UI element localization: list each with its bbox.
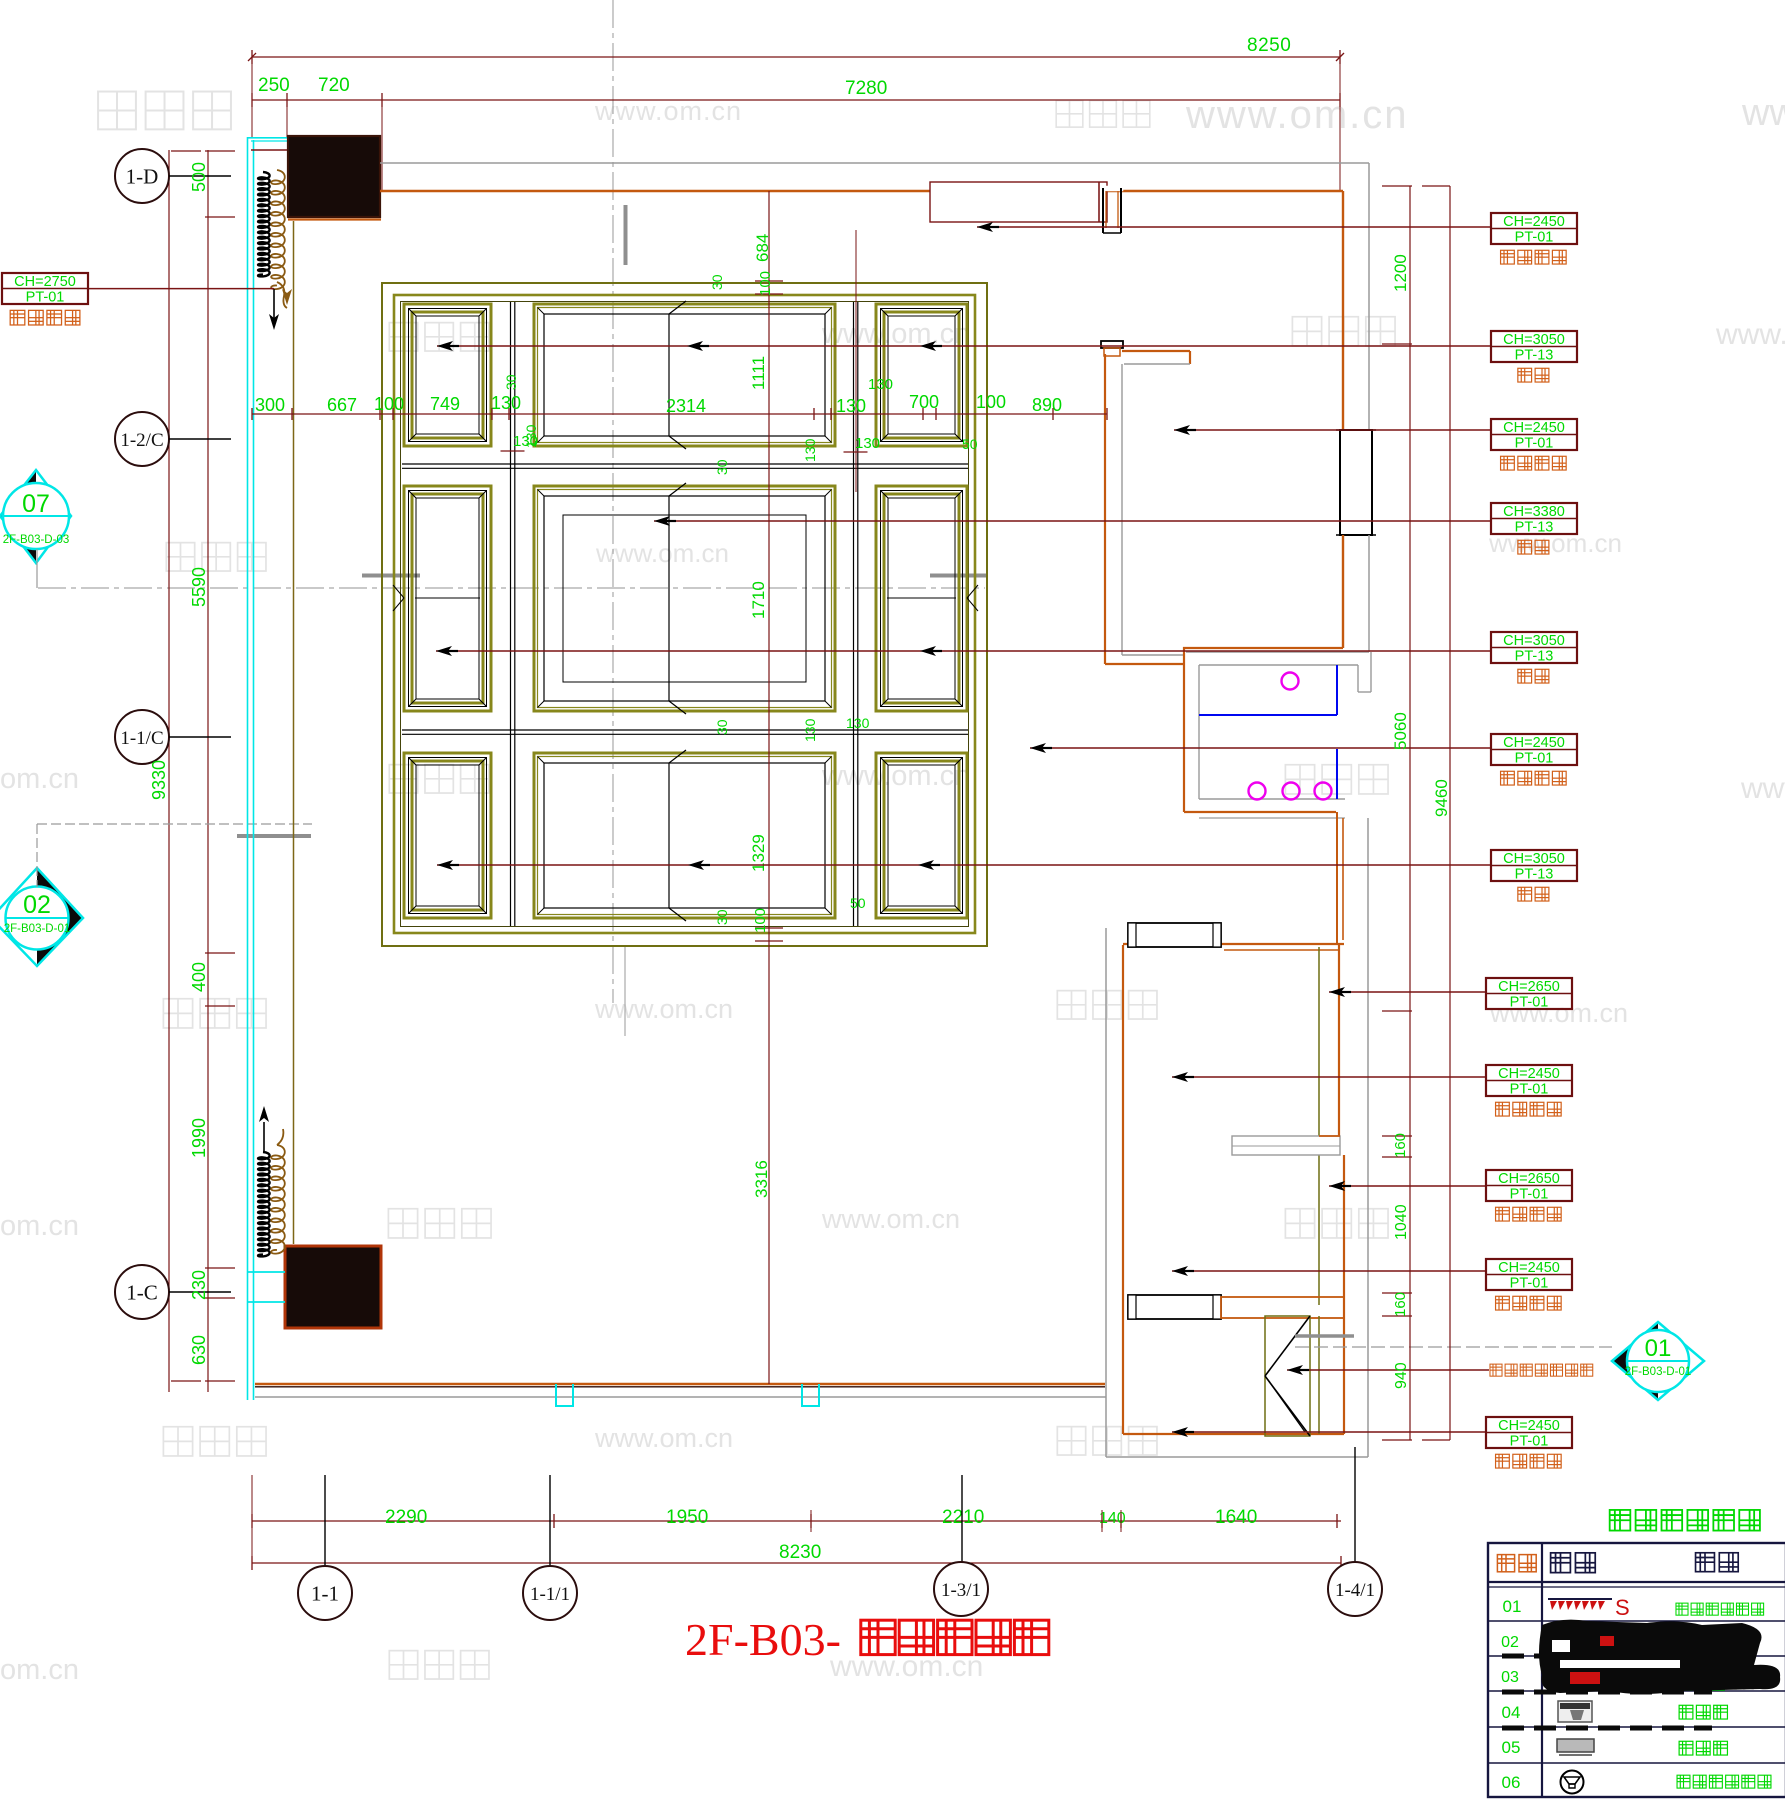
cyan door mark 2 xyxy=(802,1384,819,1406)
coffer main frame xyxy=(394,295,975,933)
svg-text:1950: 1950 xyxy=(666,1507,708,1528)
leader 11 y=1271 xyxy=(1172,1270,1486,1272)
leader 6 y=748 xyxy=(1030,747,1491,749)
coffer beam lines v2 xyxy=(853,302,855,926)
coffer beam lines h1 xyxy=(402,463,968,465)
centerline tick bar x=625 top xyxy=(624,205,628,265)
svg-text:1-4/1: 1-4/1 xyxy=(1335,1580,1375,1601)
svg-text:PT-13: PT-13 xyxy=(1515,520,1554,536)
callout 5 xyxy=(1491,632,1577,663)
svg-text:30: 30 xyxy=(714,459,730,475)
svg-text:www.om.cn: www.om.cn xyxy=(821,318,970,350)
callout 1 xyxy=(1491,213,1577,244)
coffer panel bot-mid xyxy=(534,753,835,918)
svg-text:1990: 1990 xyxy=(189,1118,209,1158)
svg-text:05: 05 xyxy=(1502,1738,1521,1757)
svg-text:02: 02 xyxy=(1501,1634,1519,1651)
grid bubble 1-1 xyxy=(298,1566,352,1620)
callout 2 xyxy=(1491,331,1577,362)
svg-text:CH=2450: CH=2450 xyxy=(1503,735,1565,751)
coffer panel top-mid xyxy=(534,304,835,446)
inner room east window xyxy=(1340,430,1372,535)
lower rooms east wall xyxy=(1338,944,1340,1136)
lower rooms outer gray xyxy=(1105,928,1107,1457)
svg-text:300: 300 xyxy=(255,395,285,415)
curtain coil brown top xyxy=(271,170,285,289)
leader from 07 xyxy=(36,549,38,588)
coffer panel mid-left xyxy=(404,486,491,711)
inner room niche orange xyxy=(1122,350,1190,352)
svg-text:130: 130 xyxy=(855,435,880,452)
dim line 8250 xyxy=(252,56,1340,58)
svg-text:PT-01: PT-01 xyxy=(1515,751,1554,767)
dim extension lines top xyxy=(251,50,253,137)
door leaf lower xyxy=(1128,1295,1221,1319)
svg-text:9460: 9460 xyxy=(1432,779,1451,817)
leader 1 y=227 xyxy=(977,226,1491,228)
svg-text:01: 01 xyxy=(1645,1335,1672,1362)
svg-text:7280: 7280 xyxy=(845,78,887,99)
svg-text:500: 500 xyxy=(189,162,209,192)
lightbox gray outline xyxy=(1186,651,1369,653)
interior olive line upper xyxy=(1318,947,1320,1305)
coil hook bottom xyxy=(277,1129,283,1145)
svg-text:03: 03 xyxy=(1501,1669,1519,1686)
svg-text:130: 130 xyxy=(523,424,539,448)
svg-text:1-1/1: 1-1/1 xyxy=(530,1584,570,1605)
door mark small xyxy=(1101,341,1123,348)
svg-text:130: 130 xyxy=(491,393,521,413)
svg-text:100: 100 xyxy=(757,271,774,296)
grid bubble 1-1/1 xyxy=(523,1566,577,1620)
grid bubble 1-C xyxy=(115,1265,169,1319)
wall stub below cyan top xyxy=(251,149,288,151)
svg-text:684: 684 xyxy=(753,234,772,262)
coffer outer boundary xyxy=(382,283,987,946)
centerline thick bar right xyxy=(930,574,987,578)
svg-text:140: 140 xyxy=(1099,1510,1126,1527)
svg-text:50: 50 xyxy=(850,895,866,911)
callout 8 xyxy=(1486,978,1572,1009)
svg-text:1329: 1329 xyxy=(749,834,768,872)
svg-text:CH=3050: CH=3050 xyxy=(1503,851,1565,867)
svg-text:30: 30 xyxy=(503,374,519,390)
coffer beam lines h2 xyxy=(402,729,968,731)
section marker 07 xyxy=(0,470,36,563)
svg-text:50: 50 xyxy=(962,436,978,452)
svg-text:8230: 8230 xyxy=(779,1542,821,1563)
down arrow with line xyxy=(273,289,275,322)
svg-text:PT-01: PT-01 xyxy=(1510,1276,1549,1292)
svg-text:CH=3050: CH=3050 xyxy=(1503,633,1565,649)
svg-text:5590: 5590 xyxy=(189,567,209,607)
svg-text:CH=3380: CH=3380 xyxy=(1503,504,1565,520)
curtain coil brown hook top xyxy=(277,282,287,308)
section marker 01 xyxy=(1612,1322,1658,1400)
svg-text:PT-13: PT-13 xyxy=(1515,867,1554,883)
svg-text:CH=2650: CH=2650 xyxy=(1498,1171,1560,1187)
svg-text:1040: 1040 xyxy=(1393,1204,1410,1240)
wall orange below lightbox xyxy=(1336,812,1338,944)
leader 4 y=521 xyxy=(654,520,1491,522)
leader 01 gray xyxy=(1295,1346,1612,1348)
lightbox lamp circles 2 xyxy=(1249,783,1266,800)
svg-text:5060: 5060 xyxy=(1391,712,1410,750)
coffer panel top-right xyxy=(876,304,967,446)
svg-text:400: 400 xyxy=(189,962,209,992)
svg-text:1111: 1111 xyxy=(749,356,768,390)
callout 10 xyxy=(1486,1170,1572,1201)
axis line x=169 xyxy=(168,150,170,1392)
svg-text:07: 07 xyxy=(22,490,50,518)
lightbox lamp circle 1 xyxy=(1282,673,1299,690)
svg-text:PT-01: PT-01 xyxy=(26,290,65,306)
leader 9 y=1077 xyxy=(1172,1076,1486,1078)
dim line 250/720/7280 xyxy=(252,99,1340,101)
legend title xyxy=(1610,1510,1631,1531)
grid bubble 1-1/C xyxy=(115,710,169,764)
svg-text:630: 630 xyxy=(189,1335,209,1365)
door leaf upper xyxy=(1128,923,1221,947)
centerline thick bar low left xyxy=(237,834,311,838)
svg-text:PT-13: PT-13 xyxy=(1515,649,1554,665)
dim ticks x=769 xyxy=(755,280,783,282)
svg-text:S: S xyxy=(1615,1595,1630,1620)
inner room east wall lower xyxy=(1342,535,1344,648)
grid bubble 1-2/C xyxy=(115,412,169,466)
watermark row G xyxy=(163,1427,192,1456)
lightbox south orange wall xyxy=(1184,811,1336,813)
cyan stubs at box xyxy=(248,1271,285,1273)
leader access panel xyxy=(1287,1369,1489,1371)
dim vertical x=1410 xyxy=(1409,186,1411,1440)
svg-text:PT-13: PT-13 xyxy=(1515,348,1554,364)
coffer panel bot-right xyxy=(876,753,967,918)
svg-text:3316: 3316 xyxy=(752,1160,771,1198)
svg-text:1-1/C: 1-1/C xyxy=(120,728,163,749)
svg-text:1710: 1710 xyxy=(749,581,768,619)
svg-text:160: 160 xyxy=(1392,1292,1409,1317)
svg-text:PT-01: PT-01 xyxy=(1515,230,1554,246)
svg-text:100: 100 xyxy=(374,394,404,414)
grid bubble 1-D xyxy=(115,149,169,203)
svg-text:PT-01: PT-01 xyxy=(1510,1082,1549,1098)
svg-text:PT-01: PT-01 xyxy=(1510,995,1549,1011)
interior vertical line x=293 xyxy=(293,221,295,1244)
dim vertical x=769 xyxy=(768,191,770,1384)
svg-text:www.om.cn: www.om.cn xyxy=(821,1204,960,1234)
gray wall right segment xyxy=(1367,818,1369,1457)
svg-text:700: 700 xyxy=(909,392,939,412)
svg-text:www.om.cn: www.om.cn xyxy=(595,538,729,568)
svg-text:www.om.cn: www.om.cn xyxy=(594,1423,733,1453)
svg-text:www.: www. xyxy=(1715,318,1785,351)
centerline horizontal y=588 xyxy=(38,587,985,589)
lower rooms bottom wall xyxy=(1123,1433,1344,1435)
grid bubble 1-3/1 xyxy=(934,1562,988,1616)
bottom wall dark line xyxy=(255,1386,1105,1388)
svg-text:8250: 8250 xyxy=(1247,35,1291,56)
inner room west wall xyxy=(1104,354,1106,664)
svg-text:230: 230 xyxy=(189,1270,209,1300)
callout CH2750 xyxy=(2,273,88,304)
svg-text:1-2/C: 1-2/C xyxy=(120,430,163,451)
curtain coil black bottom xyxy=(258,1152,270,1256)
svg-text:890: 890 xyxy=(1032,395,1062,415)
up arrow bottom xyxy=(263,1122,265,1152)
bottom wall orange xyxy=(255,1383,1105,1385)
svg-text:130: 130 xyxy=(802,438,818,462)
callout 7 xyxy=(1491,850,1577,881)
svg-text:2F-B03-: 2F-B03- xyxy=(685,1614,841,1665)
svg-text:02: 02 xyxy=(23,891,51,919)
svg-text:om.cn: om.cn xyxy=(0,1654,79,1686)
svg-text:2F-B03-D-01: 2F-B03-D-01 xyxy=(1625,1366,1691,1378)
orange wall top xyxy=(380,190,1343,192)
lower rooms west wall xyxy=(1122,945,1124,1434)
label access panel xyxy=(1490,1364,1502,1376)
svg-text:9330: 9330 xyxy=(149,760,169,800)
callout 6 xyxy=(1491,734,1577,765)
svg-text:2210: 2210 xyxy=(942,1507,984,1528)
inner room south wall xyxy=(1183,647,1343,649)
dim line y=414 xyxy=(252,413,1107,415)
svg-text:PT-01: PT-01 xyxy=(1510,1434,1549,1450)
black column box bottom xyxy=(285,1246,381,1328)
svg-text:CH=3050: CH=3050 xyxy=(1503,332,1565,348)
bottom dim line 1 xyxy=(252,1520,1341,1522)
leader 12 y=1432 xyxy=(1172,1431,1486,1433)
svg-text:250: 250 xyxy=(258,75,290,96)
legend header xyxy=(1497,1555,1514,1572)
centerline vertical x=625 xyxy=(624,945,626,1036)
svg-text:01: 01 xyxy=(1503,1597,1522,1616)
gray wall top xyxy=(380,162,1369,164)
svg-text:749: 749 xyxy=(430,394,460,414)
gray bar at access xyxy=(1295,1334,1354,1338)
centerline thick bar left xyxy=(362,574,420,578)
dim vertical x=856 segment xyxy=(855,230,857,492)
svg-text:1-D: 1-D xyxy=(126,165,159,189)
svg-text:www.: www. xyxy=(1740,772,1785,805)
watermark row B xyxy=(389,323,417,351)
centerline vertical x=613 xyxy=(612,0,614,1003)
leader 8 y=992 xyxy=(1329,991,1486,993)
bottom extension lines xyxy=(251,1475,253,1570)
svg-text:2290: 2290 xyxy=(385,1507,427,1528)
svg-text:100: 100 xyxy=(976,392,1006,412)
leader 7 y=865 xyxy=(437,864,1491,866)
callout 4 xyxy=(1491,503,1577,534)
orange line under box xyxy=(288,218,381,220)
interior olive line lower xyxy=(1318,1316,1320,1434)
dim vertical x=1450 xyxy=(1449,186,1451,1440)
leader 2 y=346 xyxy=(437,345,1491,347)
black column box top xyxy=(288,136,380,217)
leader 10 y=1186 xyxy=(1329,1185,1486,1187)
watermark row E xyxy=(163,999,192,1028)
leader CH2750 xyxy=(88,288,274,290)
shelf mid xyxy=(1232,1136,1340,1155)
svg-text:130: 130 xyxy=(802,718,818,742)
door opening top wall xyxy=(1101,186,1123,191)
legend corrupt blob xyxy=(1539,1620,1780,1694)
bottom dim line 8230 xyxy=(252,1562,1341,1564)
svg-text:CH=2450: CH=2450 xyxy=(1498,1418,1560,1434)
lightbox blue lines upper xyxy=(1199,714,1337,716)
leader 3 y=430 xyxy=(1174,429,1491,431)
svg-text:30: 30 xyxy=(714,719,730,735)
svg-text:2F-B03-D-03: 2F-B03-D-03 xyxy=(3,534,69,546)
svg-text:PT-01: PT-01 xyxy=(1510,1187,1549,1203)
svg-text:720: 720 xyxy=(318,75,350,96)
curtain coil brown bottom xyxy=(271,1145,285,1254)
svg-text:PT-01: PT-01 xyxy=(1515,436,1554,452)
svg-text:130: 130 xyxy=(868,376,893,393)
watermark row C xyxy=(166,543,194,571)
svg-text:om.cn: om.cn xyxy=(0,763,79,795)
section marker 02 xyxy=(37,868,83,966)
svg-text:CH=2750: CH=2750 xyxy=(14,274,76,290)
svg-text:940: 940 xyxy=(1393,1362,1410,1389)
svg-text:CH=2450: CH=2450 xyxy=(1503,214,1565,230)
svg-text:04: 04 xyxy=(1502,1703,1521,1722)
wall stub right of lower door xyxy=(1221,1297,1344,1318)
svg-text:2F-B03-D-01: 2F-B03-D-01 xyxy=(4,923,70,935)
coffer panel top-left xyxy=(404,304,491,446)
grid bubble 1-4/1 xyxy=(1328,1562,1382,1616)
svg-text:www.o: www.o xyxy=(1741,92,1785,134)
svg-text:om.cn: om.cn xyxy=(0,1210,79,1242)
svg-text:CH=2450: CH=2450 xyxy=(1498,1260,1560,1276)
svg-text:667: 667 xyxy=(327,395,357,415)
coffer panel bot-left xyxy=(404,753,491,918)
callout 9 xyxy=(1486,1065,1572,1096)
svg-text:160: 160 xyxy=(1392,1133,1409,1158)
svg-text:1200: 1200 xyxy=(1391,254,1410,292)
callout 3 xyxy=(1491,419,1577,450)
leader 5 y=651 xyxy=(436,650,1491,652)
access panel xyxy=(1265,1316,1310,1436)
coffer beam lines v1 xyxy=(510,302,512,926)
svg-text:CH=2450: CH=2450 xyxy=(1503,420,1565,436)
bottom wall gray xyxy=(255,1396,1106,1398)
svg-text:06: 06 xyxy=(1502,1773,1521,1792)
callout 12 xyxy=(1486,1417,1572,1448)
svg-text:www.om.cn: www.om.cn xyxy=(594,994,733,1024)
lower rooms top wall xyxy=(1123,943,1344,945)
cyan door mark 1 xyxy=(556,1384,573,1406)
callout 11 xyxy=(1486,1259,1572,1290)
legend table frame xyxy=(1488,1543,1785,1797)
svg-text:2314: 2314 xyxy=(666,396,706,416)
lightbox blue line lower xyxy=(1336,749,1338,799)
svg-text:www.om.cn: www.om.cn xyxy=(1488,528,1622,558)
svg-text:1640: 1640 xyxy=(1215,1507,1257,1528)
right dim ticks xyxy=(1382,185,1412,187)
leader from 02 xyxy=(36,824,38,887)
svg-text:1-3/1: 1-3/1 xyxy=(941,1580,981,1601)
svg-text:CH=2650: CH=2650 xyxy=(1498,979,1560,995)
beam rect right of door xyxy=(930,182,1107,222)
left dim ticks xyxy=(205,150,235,152)
svg-text:1-1: 1-1 xyxy=(311,1582,339,1606)
svg-text:130: 130 xyxy=(836,396,866,416)
coffer panel mid-right xyxy=(876,486,967,711)
lightbox west orange wall xyxy=(1183,647,1185,812)
watermark row A xyxy=(98,92,136,130)
svg-text:130: 130 xyxy=(846,715,870,731)
svg-text:1-C: 1-C xyxy=(126,1281,158,1305)
curtain coil black top xyxy=(258,172,270,276)
dim line x=208 xyxy=(207,150,209,1392)
svg-text:CH=2450: CH=2450 xyxy=(1498,1066,1560,1082)
coffer panel center xyxy=(534,486,835,711)
svg-text:30: 30 xyxy=(714,909,730,925)
svg-text:100: 100 xyxy=(752,908,769,933)
cyan wall line left xyxy=(247,137,249,1400)
svg-text:30: 30 xyxy=(709,274,725,290)
